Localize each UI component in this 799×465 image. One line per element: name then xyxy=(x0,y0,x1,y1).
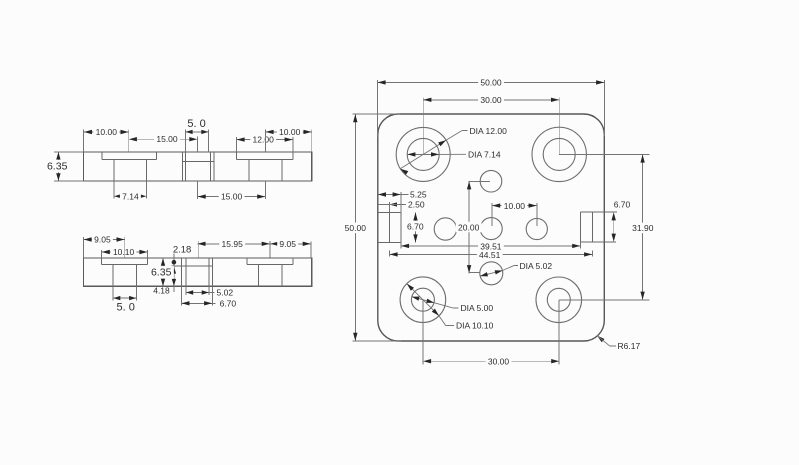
hole top-left counterbore DIA 12.00 xyxy=(396,127,450,181)
ext line recess centre xyxy=(124,237,126,258)
dim 39.51 xyxy=(401,245,581,247)
hole top-right counterbore xyxy=(532,127,586,181)
svg-text:9.05: 9.05 xyxy=(94,235,111,245)
svg-text:12.00: 12.00 xyxy=(253,135,275,145)
svg-text:10.00: 10.00 xyxy=(504,201,526,211)
svg-text:15.00: 15.00 xyxy=(156,134,178,144)
hole bottom-right bore xyxy=(547,288,570,311)
dim 50.00 top xyxy=(377,81,604,83)
svg-text:6.70: 6.70 xyxy=(220,299,237,309)
hole top-right bore xyxy=(543,138,575,170)
svg-text:2.18: 2.18 xyxy=(173,244,192,255)
section B right bore xyxy=(257,265,259,287)
dim 50.00 left xyxy=(354,114,356,341)
hole mid-right xyxy=(526,218,547,239)
svg-text:30.00: 30.00 xyxy=(488,356,510,366)
section B left counterbore xyxy=(101,258,103,264)
dim 9.05 section B right xyxy=(270,243,311,245)
section A left bore xyxy=(113,160,115,181)
dim 20.00 vertical xyxy=(468,181,470,273)
svg-text:20.00: 20.00 xyxy=(458,222,480,232)
svg-text:4.18: 4.18 xyxy=(153,286,170,296)
svg-text:31.90: 31.90 xyxy=(632,223,654,233)
svg-text:44.51: 44.51 xyxy=(479,250,501,260)
section A right bore xyxy=(248,160,250,181)
dim 15.00 section A lower xyxy=(198,196,266,198)
plate outline (50x50 rounded square) xyxy=(378,114,605,341)
svg-text:DIA 5.00: DIA 5.00 xyxy=(461,303,494,313)
left edge slot xyxy=(388,212,390,242)
section B outline xyxy=(84,258,312,286)
hole bottom-middle DIA 5.02 xyxy=(480,262,503,285)
svg-text:9.05: 9.05 xyxy=(279,239,296,249)
svg-text:R6.17: R6.17 xyxy=(618,341,641,351)
dim 7.14 section A xyxy=(114,195,147,197)
section A right counterbore xyxy=(235,152,237,160)
dim 6.70 right slot xyxy=(613,212,615,242)
svg-text:7.14: 7.14 xyxy=(122,191,139,201)
dim 15.00 section A upper xyxy=(129,138,198,140)
svg-text:15.00: 15.00 xyxy=(221,192,243,202)
hole top-left bore DIA 7.14 xyxy=(407,138,439,170)
dim 15.95 section B xyxy=(197,243,270,245)
hole bottom-left counterbore DIA 10.10 xyxy=(400,277,446,323)
svg-text:50.00: 50.00 xyxy=(345,223,367,233)
dim 10.10 section B xyxy=(102,251,148,253)
svg-text:30.00: 30.00 xyxy=(480,95,502,105)
section A outline xyxy=(84,152,312,181)
leader DIA 7.14 xyxy=(407,153,439,155)
dim 5.02 section B xyxy=(186,292,209,294)
hole bottom-right counterbore xyxy=(536,277,582,323)
dim 2.50 xyxy=(378,204,390,206)
section A left counterbore xyxy=(101,152,103,160)
svg-text:10.00: 10.00 xyxy=(96,127,118,137)
svg-text:5.02: 5.02 xyxy=(217,288,234,298)
dim 5.0 section B xyxy=(113,297,136,299)
svg-text:10.00: 10.00 xyxy=(279,127,301,137)
svg-text:5. 0: 5. 0 xyxy=(117,302,135,314)
leader DIA 5.02 bottom-middle xyxy=(480,271,502,277)
dim 10.00 section A left xyxy=(84,131,129,133)
dim 30.00 top xyxy=(423,99,559,101)
dim 5.25 xyxy=(378,194,401,196)
hole mid-center xyxy=(480,218,502,240)
dim 10.00 middle xyxy=(492,205,537,207)
svg-text:DIA 7.14: DIA 7.14 xyxy=(468,150,501,160)
dim 6.70 section B xyxy=(181,302,212,304)
hole mid-left xyxy=(434,218,456,240)
leader DIA 5.00 xyxy=(412,297,434,303)
svg-text:6.70: 6.70 xyxy=(614,200,631,210)
leader DIA 10.10 xyxy=(407,284,439,316)
right edge slot xyxy=(591,212,593,242)
svg-text:DIA 12.00: DIA 12.00 xyxy=(470,126,508,136)
svg-text:6.35: 6.35 xyxy=(151,267,172,279)
ext line hole centre right xyxy=(264,130,266,152)
hole top-middle DIA 5.02 xyxy=(480,170,502,192)
dim 6.35 section B xyxy=(162,258,164,286)
dim 6.70 left slot xyxy=(415,212,417,242)
dim 31.90 right xyxy=(642,154,644,299)
svg-text:50.00: 50.00 xyxy=(480,78,502,88)
leader DIA 12.00 xyxy=(400,140,446,169)
svg-text:15.95: 15.95 xyxy=(222,239,244,249)
dim 6.35 section A xyxy=(54,151,84,153)
section B right counterbore xyxy=(246,258,248,264)
svg-text:DIA 5.02: DIA 5.02 xyxy=(520,261,553,271)
svg-text:10.10: 10.10 xyxy=(113,247,135,257)
dim 4.18 xyxy=(172,267,176,274)
section A centre slot xyxy=(181,152,183,181)
section B left bore xyxy=(112,265,114,287)
svg-text:DIA 10.10: DIA 10.10 xyxy=(456,321,494,331)
hole bottom-left bore DIA 5.00 xyxy=(411,288,434,311)
svg-text:2.50: 2.50 xyxy=(408,200,425,210)
dim 5.0 section A slot xyxy=(185,131,208,133)
leader R6.17 xyxy=(597,336,605,343)
dim 30.00 bottom xyxy=(423,360,560,362)
svg-text:5. 0: 5. 0 xyxy=(187,118,205,130)
dim 10.00 section A right xyxy=(265,131,311,133)
dim 12.00 section A xyxy=(236,139,292,141)
section B centre slot xyxy=(180,258,182,286)
svg-text:6.35: 6.35 xyxy=(47,160,68,172)
svg-text:5.25: 5.25 xyxy=(410,190,427,200)
dim 9.05 section B left xyxy=(84,239,125,241)
svg-text:6.70: 6.70 xyxy=(407,221,424,231)
dim 44.51 xyxy=(389,253,592,255)
